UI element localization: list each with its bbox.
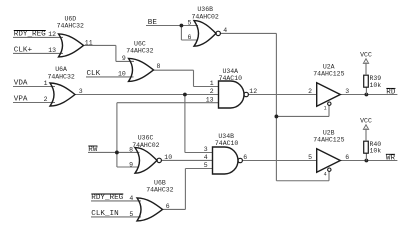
wire into U36C pin 9 bbox=[117, 166, 139, 168]
wire U2A pin 3 to RD bbox=[340, 94, 397, 96]
nor-gate U36B 74AHC02 bbox=[192, 6, 221, 46]
svg-text:4: 4 bbox=[204, 154, 208, 161]
wire RDY_REG to U6D pin 12 bbox=[13, 36, 63, 38]
junction BE branch bbox=[180, 24, 184, 28]
label CLK_IN bbox=[91, 210, 118, 218]
svg-text:74AHC125: 74AHC125 bbox=[313, 136, 344, 143]
svg-text:74AHC32: 74AHC32 bbox=[57, 23, 84, 30]
or-gate U6A 74AHC32 bbox=[47, 66, 75, 106]
svg-text:2: 2 bbox=[44, 96, 48, 103]
wire to U2B enable bbox=[276, 180, 329, 182]
buffer U2B 74AHC125 bbox=[313, 130, 344, 173]
svg-text:9: 9 bbox=[122, 55, 126, 62]
svg-text:74AHC32: 74AHC32 bbox=[126, 48, 153, 55]
label RD bbox=[386, 88, 396, 96]
wire U34A pin 12 to U2A pin 2 bbox=[248, 94, 316, 96]
junction R39 to RD net bbox=[365, 93, 369, 97]
svg-text:6: 6 bbox=[243, 154, 247, 161]
svg-text:RDY_REG: RDY_REG bbox=[91, 194, 123, 202]
svg-text:VCC: VCC bbox=[360, 51, 372, 58]
svg-text:5: 5 bbox=[129, 211, 133, 218]
or-gate U6B 74AHC32 bbox=[137, 179, 174, 221]
svg-text:12: 12 bbox=[48, 31, 56, 38]
wire U2B pin 6 to WR bbox=[340, 160, 397, 162]
resistor R40 10k bbox=[364, 141, 382, 155]
wire vertical BE to U36B pin 6 bbox=[180, 26, 182, 41]
label VDA bbox=[14, 80, 28, 88]
buffer U2A 74AHC125 bbox=[313, 64, 344, 107]
svg-text:U6B: U6B bbox=[154, 179, 166, 186]
wire vertical U6D.11 to U6C.9 bbox=[115, 45, 117, 61]
label RDY_REG (U6D) bbox=[14, 31, 46, 39]
wire into U34B pin 5 bbox=[185, 168, 212, 170]
svg-text:74AC10: 74AC10 bbox=[215, 140, 239, 147]
wire U34B pin 6 to U2B pin 5 bbox=[242, 160, 316, 162]
label RDY_REG (U6B) bbox=[91, 194, 123, 202]
svg-text:RD: RD bbox=[386, 88, 396, 96]
or-gate U6D 74AHC32 bbox=[57, 16, 84, 57]
wire U6B pin 6 output bbox=[163, 208, 186, 210]
svg-text:13: 13 bbox=[48, 47, 56, 54]
svg-text:3: 3 bbox=[345, 88, 349, 95]
wire vertical into U2A pin 1 bbox=[328, 105, 330, 116]
wire vertical into U2B pin 4 bbox=[328, 171, 330, 180]
svg-text:2: 2 bbox=[308, 88, 312, 95]
svg-text:1: 1 bbox=[44, 80, 48, 87]
junction R40 to WR net bbox=[365, 159, 369, 163]
svg-text:8: 8 bbox=[129, 147, 133, 154]
svg-text:BE: BE bbox=[148, 19, 158, 27]
svg-text:U34B: U34B bbox=[218, 133, 234, 140]
svg-text:9: 9 bbox=[129, 161, 133, 168]
label VPA bbox=[14, 96, 28, 104]
svg-text:11: 11 bbox=[85, 39, 93, 46]
svg-text:10: 10 bbox=[118, 70, 126, 77]
svg-text:74AHC02: 74AHC02 bbox=[192, 13, 219, 20]
svg-text:5: 5 bbox=[187, 19, 191, 26]
nand-gate U34A 74AC10 bbox=[219, 68, 249, 108]
wire R39 bottom stub bbox=[365, 87, 367, 94]
wire into U34A pin 1 bbox=[194, 86, 219, 88]
svg-text:1: 1 bbox=[324, 105, 327, 111]
svg-text:4: 4 bbox=[129, 195, 133, 202]
svg-text:CLK: CLK bbox=[87, 70, 101, 78]
wire R40 bottom stub bbox=[365, 153, 367, 160]
svg-text:VPA: VPA bbox=[14, 96, 28, 104]
svg-text:U36B: U36B bbox=[197, 6, 213, 13]
junction RW branch bbox=[115, 151, 119, 155]
svg-text:RDY_REG: RDY_REG bbox=[14, 31, 46, 39]
svg-text:6: 6 bbox=[166, 203, 170, 210]
wire U36C pin 10 to U34B pin 4 bbox=[161, 159, 212, 161]
wire CLK to U6C pin 10 bbox=[86, 76, 134, 78]
svg-text:74AHC02: 74AHC02 bbox=[132, 142, 159, 149]
svg-text:2: 2 bbox=[210, 88, 214, 95]
wire vertical U6B.6 to U34B.5 bbox=[184, 169, 186, 210]
label CLK bbox=[87, 70, 101, 78]
wire BE to U36B pin 5 bbox=[146, 25, 198, 27]
svg-text:U34A: U34A bbox=[222, 68, 238, 75]
svg-text:VCC: VCC bbox=[360, 117, 372, 124]
wire VPA to U6A pin 2 bbox=[13, 102, 55, 104]
svg-text:12: 12 bbox=[249, 88, 257, 95]
svg-text:U6A: U6A bbox=[55, 66, 67, 73]
wire U6C pin 8 output bbox=[154, 69, 194, 71]
svg-text:74AHC32: 74AHC32 bbox=[47, 73, 74, 80]
wire into U34B pin 3 bbox=[185, 152, 213, 154]
wire into U36B pin 6 bbox=[181, 39, 198, 41]
svg-text:U36C: U36C bbox=[138, 135, 154, 142]
svg-text:10: 10 bbox=[164, 154, 172, 161]
wire to U2A enable bbox=[276, 115, 329, 117]
svg-text:CLK+: CLK+ bbox=[14, 47, 33, 55]
wire into U6C pin 9 bbox=[116, 60, 134, 62]
svg-text:6: 6 bbox=[345, 154, 349, 161]
wire RW net to U34A pin 13 bbox=[117, 102, 219, 104]
svg-text:VDA: VDA bbox=[14, 80, 28, 88]
junction enable net bbox=[275, 115, 279, 119]
wire vertical U6C.8 to U34A.1 bbox=[193, 70, 195, 86]
svg-text:5: 5 bbox=[308, 154, 312, 161]
wire CLK_IN to U6B pin 5 bbox=[91, 216, 141, 218]
svg-text:74AHC125: 74AHC125 bbox=[313, 70, 344, 77]
wire U6D pin 11 output bbox=[83, 44, 116, 46]
label RW bbox=[88, 146, 98, 154]
svg-text:5: 5 bbox=[204, 162, 208, 169]
wire vertical node to U34B.3 bbox=[184, 95, 186, 153]
svg-text:13: 13 bbox=[206, 97, 214, 104]
svg-text:1: 1 bbox=[210, 80, 214, 87]
power VCC (R40) bbox=[360, 117, 372, 141]
svg-text:4: 4 bbox=[324, 171, 327, 177]
nand-gate U34B 74AC10 bbox=[213, 133, 243, 174]
wire vertical RW net bbox=[116, 103, 118, 167]
power VCC (R39) bbox=[360, 51, 372, 75]
svg-text:U6C: U6C bbox=[134, 41, 146, 48]
svg-text:3: 3 bbox=[79, 88, 83, 95]
svg-text:RW: RW bbox=[88, 146, 98, 154]
svg-text:74AC10: 74AC10 bbox=[219, 75, 243, 82]
wire RW to U36C pin 8 bbox=[88, 151, 140, 153]
wire U6A pin 3 to U34A pin 2 bbox=[75, 94, 219, 96]
wire RDY_REG to U6B pin 4 bbox=[91, 200, 141, 202]
svg-text:6: 6 bbox=[187, 34, 191, 41]
svg-text:U6D: U6D bbox=[64, 16, 76, 23]
svg-text:10k: 10k bbox=[370, 148, 382, 155]
wire vertical enable net bbox=[275, 33, 277, 180]
label BE bbox=[148, 19, 158, 27]
svg-text:10k: 10k bbox=[370, 82, 382, 89]
nor-gate U36C 74AHC02 bbox=[132, 135, 161, 174]
label WR bbox=[386, 154, 396, 162]
svg-text:CLK_IN: CLK_IN bbox=[91, 210, 118, 218]
svg-text:3: 3 bbox=[204, 146, 208, 153]
junction U6A.3 branch bbox=[183, 93, 187, 97]
label CLK+ bbox=[14, 47, 33, 55]
wire VDA to U6A pin 1 bbox=[13, 86, 55, 88]
or-gate U6C 74AHC32 bbox=[126, 41, 153, 82]
svg-text:8: 8 bbox=[157, 63, 161, 70]
wire U36B pin 4 output bbox=[220, 32, 276, 34]
svg-text:WR: WR bbox=[386, 154, 396, 162]
resistor R39 10k bbox=[364, 75, 382, 89]
svg-text:4: 4 bbox=[223, 27, 227, 34]
svg-text:74AHC32: 74AHC32 bbox=[146, 186, 173, 193]
wire CLK+ to U6D pin 13 bbox=[13, 52, 63, 54]
